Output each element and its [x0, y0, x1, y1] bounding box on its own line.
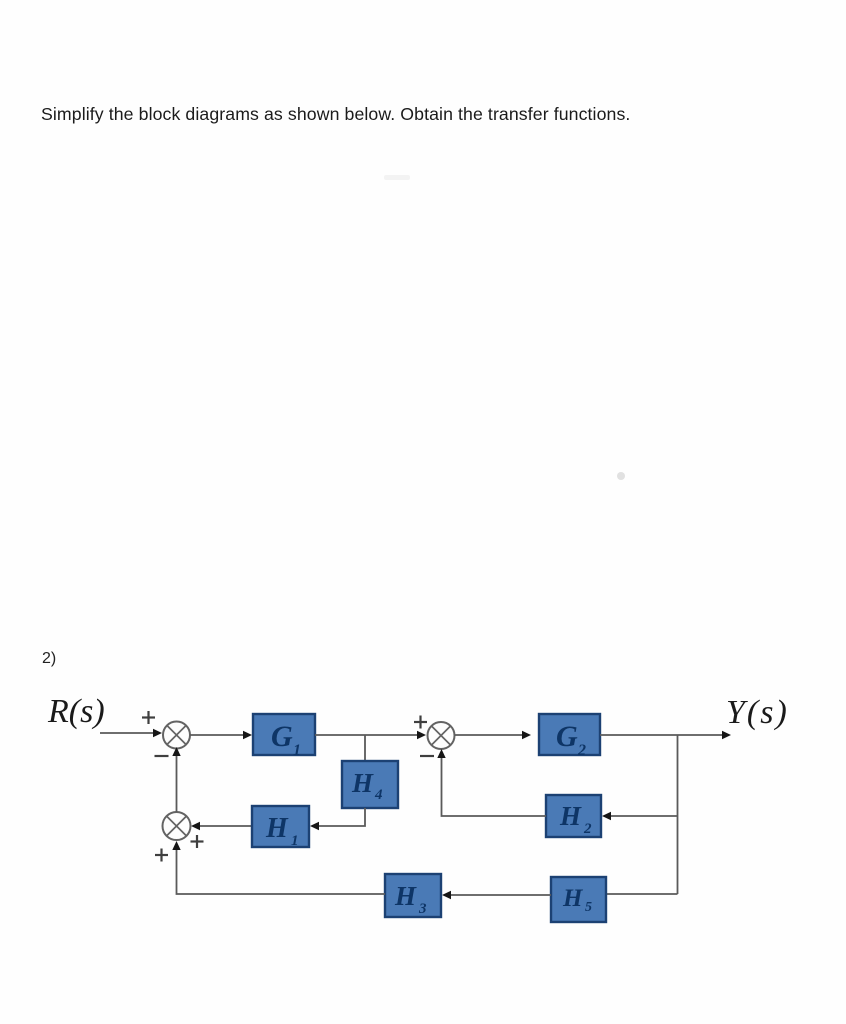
wire R(s) to summing junction S1 [100, 732, 154, 734]
svg-text:H: H [265, 813, 289, 844]
summing junction S1 [163, 722, 190, 749]
sign + at S3 bottom-left [155, 849, 168, 862]
svg-text:H: H [562, 885, 584, 912]
wire H1 output into S3 [200, 825, 252, 827]
sign + at S2 left [414, 716, 427, 729]
svg-text:H: H [351, 768, 374, 798]
svg-text:5: 5 [585, 900, 592, 915]
wire node at x=365 down to H4 [364, 735, 366, 761]
wire H2 output to S2 bottom [442, 756, 547, 816]
svg-text:2: 2 [577, 742, 586, 759]
wire H5 to H3 [450, 894, 551, 896]
svg-text:4: 4 [374, 787, 383, 803]
sign + at S1 left [142, 711, 155, 724]
sign - at S2 bottom-left [420, 755, 434, 757]
block H5 [551, 877, 606, 922]
wire H3 output left and up into S3 [177, 850, 386, 894]
wire rail bottom into H5 [606, 893, 678, 895]
sign - at S1 bottom-left [155, 755, 169, 757]
faint speck middle right [617, 472, 625, 480]
sign + at S3 right [191, 835, 204, 848]
wire node down right rail [677, 735, 679, 894]
svg-text:1: 1 [293, 742, 301, 759]
wire S2 to G2 [455, 734, 525, 736]
svg-text:H: H [394, 881, 417, 911]
header instruction text [41, 104, 630, 125]
svg-text:Y(s): Y(s) [726, 694, 789, 731]
summing junction S2 [428, 722, 455, 749]
block H2 [546, 795, 601, 837]
block G1 [253, 714, 315, 755]
block H4 [342, 761, 398, 808]
svg-text:3: 3 [418, 901, 427, 917]
block G2 [539, 714, 600, 755]
block H3 [385, 874, 441, 917]
svg-text:R(s): R(s) [47, 693, 105, 730]
wire G1 to summing junction S2 [315, 734, 418, 736]
wire S3 up to S1 [176, 755, 178, 812]
svg-text:G: G [556, 720, 578, 753]
wire H4 down and left into H1 [318, 808, 365, 826]
wire rail into H2 [610, 815, 678, 817]
svg-text:1: 1 [291, 833, 299, 849]
faint smudge top [384, 175, 410, 180]
summing junction S3 [163, 812, 191, 840]
item number 2) [42, 650, 56, 668]
svg-text:2: 2 [583, 821, 592, 837]
wire S1 to G1 [190, 734, 245, 736]
svg-text:H: H [559, 801, 582, 831]
block H1 [252, 806, 309, 847]
wire G2 to Y(s) [600, 734, 723, 736]
svg-text:G: G [271, 720, 293, 753]
